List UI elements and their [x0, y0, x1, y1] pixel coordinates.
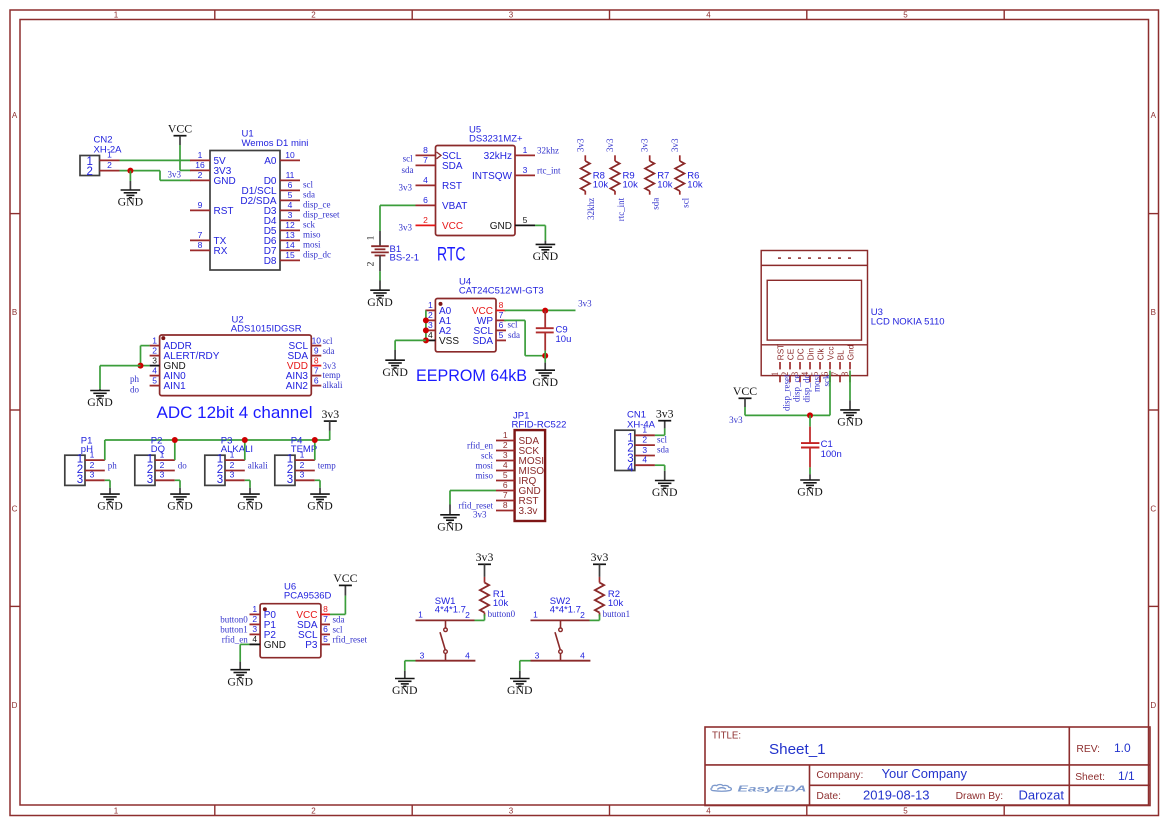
pin 3: [225, 479, 245, 481]
svg-text:VCC: VCC: [442, 221, 463, 232]
svg-text:6: 6: [503, 480, 508, 490]
svg-text:GND: GND: [167, 499, 193, 513]
svg-text:GND: GND: [837, 415, 863, 429]
rtc U5 DS3231MZ+: [399, 124, 561, 265]
svg-text:GND: GND: [237, 499, 263, 513]
svg-text:button1: button1: [603, 609, 631, 619]
eeprom U4 CAT24C512WI-GT3: [416, 277, 544, 385]
svg-text:disp_dc: disp_dc: [303, 250, 331, 260]
svg-text:3: 3: [642, 445, 647, 455]
pin 3: [295, 479, 315, 481]
svg-text:2: 2: [90, 460, 95, 470]
svg-text:scl: scl: [323, 336, 333, 346]
svg-text:Date:: Date:: [816, 791, 841, 802]
wire pin3 to ground: [315, 480, 320, 494]
svg-text:GND: GND: [652, 485, 678, 499]
svg-text:1: 1: [230, 450, 235, 460]
svg-text:3: 3: [152, 355, 157, 365]
svg-text:3: 3: [217, 474, 223, 486]
junction: [542, 353, 548, 359]
pin 13 D6: [280, 239, 300, 241]
svg-text:2: 2: [152, 345, 157, 355]
svg-text:ph: ph: [130, 374, 140, 384]
ground: [97, 494, 123, 513]
wire pin3 to ground: [175, 480, 180, 494]
wire R1 to SW pin2: [475, 614, 485, 620]
svg-text:3: 3: [300, 470, 305, 480]
svg-text:3v3: 3v3: [168, 170, 182, 180]
io expander U6 PCA9536D: [220, 582, 367, 658]
svg-text:2: 2: [198, 170, 203, 180]
pin 3: [85, 479, 105, 481]
pin 2: [225, 470, 245, 472]
svg-text:GND: GND: [507, 683, 533, 697]
svg-text:VBAT: VBAT: [442, 201, 467, 212]
svg-text:1: 1: [198, 150, 203, 160]
junction: [423, 317, 429, 323]
connector P2 DQ: [135, 436, 175, 487]
mcu U1 Wemos D1 mini: [190, 128, 340, 270]
wire SW pin3 to ground: [405, 661, 416, 679]
pin 7 RST: [496, 500, 515, 502]
pin 9 RST: [190, 209, 210, 211]
switch SW1 4*4*1.7: [416, 596, 476, 661]
svg-text:scl: scl: [303, 180, 313, 190]
svg-text:4: 4: [706, 806, 711, 815]
pin 8 VDD: [311, 365, 321, 367]
pin 1: [379, 231, 381, 246]
wire U4 address pins: [425, 310, 427, 340]
svg-text:GND: GND: [118, 195, 144, 209]
svg-text:VCC: VCC: [333, 571, 357, 585]
pin 8 RX: [190, 249, 210, 251]
battery B1 BS-2-1: [367, 231, 420, 271]
svg-text:disp_reset: disp_reset: [782, 374, 792, 411]
svg-text:6: 6: [323, 624, 328, 634]
svg-text:1: 1: [152, 335, 157, 345]
wire to ground: [129, 171, 131, 181]
pin 12 D5: [280, 229, 300, 231]
svg-text:3.3v: 3.3v: [519, 506, 538, 517]
wire CN1-4 to ground: [655, 465, 665, 480]
contacts: [560, 620, 562, 628]
svg-text:A: A: [12, 111, 18, 120]
svg-text:5: 5: [499, 330, 504, 340]
pin 2 GND: [190, 179, 210, 181]
svg-text:14: 14: [285, 240, 295, 250]
pin 9 SDA: [311, 355, 321, 357]
bezel dots: [778, 257, 851, 259]
pin 1: [295, 459, 315, 461]
connector CN2 XH-2A: [80, 135, 122, 179]
pin 7 SDA: [321, 623, 330, 625]
pin 8 VCC: [496, 309, 506, 311]
svg-text:7: 7: [830, 371, 840, 376]
ground: [533, 244, 559, 263]
svg-text:VCC: VCC: [168, 122, 192, 136]
pin 8 VCC: [321, 613, 330, 615]
svg-text:15: 15: [285, 250, 295, 260]
svg-text:3: 3: [90, 470, 95, 480]
svg-text:3: 3: [252, 624, 257, 634]
pin 4 RST: [416, 184, 436, 186]
svg-text:AIN1: AIN1: [164, 381, 187, 392]
svg-text:disp_dc: disp_dc: [802, 374, 812, 402]
svg-text:1: 1: [367, 235, 377, 240]
svg-text:1: 1: [523, 145, 528, 155]
pin 2 SCK: [496, 450, 515, 452]
svg-text:4: 4: [627, 463, 634, 475]
junction: [127, 168, 133, 174]
svg-text:3v3: 3v3: [640, 138, 650, 152]
pin 7 AIN3: [311, 375, 321, 377]
svg-text:Sheet:: Sheet:: [1075, 772, 1105, 783]
svg-text:2: 2: [580, 610, 585, 620]
pin 1 32kHz: [515, 154, 535, 156]
svg-text:sda: sda: [323, 346, 335, 356]
svg-text:disp_reset: disp_reset: [303, 210, 340, 220]
svg-text:7: 7: [423, 155, 428, 165]
ground: [167, 494, 193, 513]
pin 1 5V: [190, 159, 210, 161]
wire pin3 to ground: [245, 480, 250, 494]
svg-text:sda: sda: [303, 190, 315, 200]
svg-text:3v3: 3v3: [399, 183, 413, 193]
svg-text:Company:: Company:: [816, 770, 863, 781]
svg-text:D: D: [1150, 701, 1156, 710]
svg-text:miso: miso: [475, 470, 493, 480]
svg-text:temp: temp: [318, 461, 336, 471]
svg-text:1: 1: [160, 450, 165, 460]
svg-text:GND: GND: [227, 674, 253, 688]
pin 4 D3: [280, 209, 300, 211]
ground: [837, 410, 863, 429]
svg-text:mosi: mosi: [475, 460, 493, 470]
svg-text:3: 3: [509, 806, 514, 815]
easyeda logo: [711, 783, 807, 793]
svg-text:3v3: 3v3: [729, 415, 743, 425]
adc U2 ADS1015IDGSR: [130, 315, 343, 423]
svg-text:3: 3: [287, 474, 293, 486]
svg-text:scl: scl: [657, 434, 667, 444]
svg-text:3v3: 3v3: [476, 550, 494, 564]
ground: [797, 480, 823, 499]
svg-text:XH-4A: XH-4A: [627, 420, 656, 431]
pin 2 P1: [250, 623, 261, 625]
svg-text:VCC: VCC: [733, 384, 757, 398]
svg-text:5: 5: [903, 806, 908, 815]
header JP1 RFID-RC522: [459, 411, 567, 521]
svg-text:4: 4: [642, 455, 647, 465]
wire U6 GND to ground: [240, 644, 249, 669]
pin 4 GND: [250, 643, 261, 645]
svg-text:3v3: 3v3: [575, 138, 585, 152]
pin 1 mark: [161, 336, 165, 340]
svg-text:10u: 10u: [556, 334, 572, 345]
power flag 3v3 (CN1): [656, 407, 674, 421]
junction: [242, 437, 248, 443]
svg-text:ADS1015IDGSR: ADS1015IDGSR: [231, 323, 302, 334]
pin 4: [561, 660, 591, 662]
svg-text:3v3: 3v3: [591, 550, 609, 564]
power flag VCC (U6): [333, 571, 357, 585]
svg-text:CAT24C512WI-GT3: CAT24C512WI-GT3: [459, 286, 544, 297]
svg-text:GND: GND: [307, 499, 333, 513]
pin 5 D2/SDA: [280, 199, 300, 201]
svg-text:LCD NOKIA 5110: LCD NOKIA 5110: [871, 316, 945, 327]
svg-text:2: 2: [428, 310, 433, 320]
wire U5 GND to ground: [535, 225, 545, 244]
svg-text:3: 3: [77, 474, 83, 486]
svg-text:1.0: 1.0: [1114, 741, 1131, 755]
pin 10 A0: [280, 159, 300, 161]
svg-text:BL: BL: [837, 350, 846, 360]
resistor R9 10k: [605, 138, 638, 221]
svg-text:3: 3: [509, 11, 514, 20]
svg-text:3v3: 3v3: [605, 138, 615, 152]
pin 3: [416, 660, 446, 662]
svg-text:3v3: 3v3: [670, 138, 680, 152]
svg-text:3v3: 3v3: [321, 407, 339, 421]
wire LCD Gnd to ground: [849, 371, 851, 410]
svg-text:Gnd: Gnd: [847, 344, 856, 360]
svg-text:1: 1: [770, 372, 780, 377]
svg-text:2: 2: [230, 460, 235, 470]
svg-text:7: 7: [314, 365, 319, 375]
svg-text:REV:: REV:: [1076, 744, 1100, 755]
pin 2: [379, 256, 381, 272]
svg-text:B: B: [12, 308, 17, 317]
svg-text:1: 1: [114, 11, 119, 20]
svg-text:8: 8: [503, 500, 508, 510]
svg-text:1: 1: [533, 610, 538, 620]
pin 16 3V3: [190, 169, 210, 171]
resistor R7 10k: [640, 138, 673, 210]
wire U4 VCC to 3v3: [505, 309, 576, 311]
svg-text:SDA: SDA: [472, 336, 493, 347]
pin 11 D0: [280, 179, 300, 181]
svg-text:disp_ce: disp_ce: [303, 200, 331, 210]
pin 1: [155, 459, 175, 461]
svg-text:3: 3: [428, 320, 433, 330]
svg-text:sda: sda: [508, 330, 520, 340]
svg-text:3: 3: [288, 210, 293, 220]
svg-text:1: 1: [428, 300, 433, 310]
pin 7 TX: [190, 239, 210, 241]
capacitor C1 100n: [801, 415, 842, 467]
wire U4 WP to C9 bottom: [504, 320, 545, 355]
svg-text:4: 4: [423, 175, 428, 185]
pin 3 D4: [280, 219, 300, 221]
svg-text:sda: sda: [333, 615, 345, 625]
ground: [532, 370, 558, 389]
svg-text:32kHz: 32kHz: [484, 151, 512, 162]
svg-text:4: 4: [503, 460, 508, 470]
svg-text:10k: 10k: [608, 598, 624, 609]
svg-text:button0: button0: [220, 615, 248, 625]
svg-text:rtc_int: rtc_int: [616, 197, 626, 221]
switch SW2 4*4*1.7: [531, 596, 591, 661]
wire U5 VBAT to B1: [380, 205, 416, 231]
svg-text:4: 4: [465, 650, 470, 660]
ground: [437, 515, 463, 534]
wire VCC to U1 3V3: [179, 145, 181, 170]
pin 5 GND: [515, 224, 535, 226]
svg-text:3v3: 3v3: [656, 407, 674, 421]
svg-text:GND: GND: [532, 375, 558, 389]
pin 4: [635, 464, 655, 466]
svg-text:2019-08-13: 2019-08-13: [863, 787, 930, 802]
svg-text:DC: DC: [797, 348, 806, 360]
svg-text:Sheet_1: Sheet_1: [769, 741, 826, 758]
svg-text:8: 8: [499, 300, 504, 310]
svg-text:A0: A0: [264, 156, 277, 167]
svg-text:scl: scl: [681, 197, 691, 207]
junction: [807, 412, 813, 418]
pin 4: [446, 660, 476, 662]
svg-text:3: 3: [147, 474, 153, 486]
junction: [542, 308, 548, 314]
power flag 3v3 (R2): [591, 550, 609, 577]
pin 1: [100, 159, 120, 161]
pin 7 SDA: [416, 164, 436, 166]
svg-text:GND: GND: [437, 519, 463, 533]
ground: [392, 679, 418, 698]
svg-text:2: 2: [252, 614, 257, 624]
svg-text:A: A: [1151, 111, 1157, 120]
power flag 3v3 (R1): [476, 550, 494, 577]
svg-text:GND: GND: [392, 683, 418, 697]
svg-text:GND: GND: [367, 295, 393, 309]
svg-text:rfid_reset: rfid_reset: [333, 635, 368, 645]
svg-text:1: 1: [107, 150, 112, 160]
ground: [87, 391, 113, 410]
svg-text:D8: D8: [264, 256, 277, 267]
svg-text:ALKALI: ALKALI: [221, 444, 253, 455]
pin 6 SCL: [496, 329, 506, 331]
plates: [371, 245, 389, 247]
pin 6 AIN2: [311, 385, 321, 387]
svg-text:6: 6: [288, 180, 293, 190]
pin 5 P3: [321, 643, 330, 645]
ground: [118, 190, 144, 209]
svg-text:RX: RX: [214, 246, 228, 257]
svg-text:DS3231MZ+: DS3231MZ+: [469, 134, 523, 145]
ground: [507, 679, 533, 698]
wire VSS to ground: [395, 340, 426, 360]
svg-text:2: 2: [642, 435, 647, 445]
svg-text:button1: button1: [220, 625, 248, 635]
ground: [652, 481, 678, 500]
svg-text:temp: temp: [323, 370, 341, 380]
svg-text:AIN2: AIN2: [286, 381, 309, 392]
pin 3 MOSI: [496, 460, 515, 462]
svg-text:2: 2: [311, 806, 316, 815]
wire pin1 to 3v3 bus: [314, 440, 316, 460]
pin 10 SCL: [311, 345, 321, 347]
svg-text:1/1: 1/1: [1118, 769, 1135, 783]
svg-text:3: 3: [535, 650, 540, 660]
svg-text:button0: button0: [488, 609, 516, 619]
svg-text:4: 4: [288, 200, 293, 210]
pin 6 SCL: [321, 633, 330, 635]
svg-text:Din: Din: [807, 347, 816, 360]
svg-text:4: 4: [706, 11, 711, 20]
svg-text:1: 1: [90, 450, 95, 460]
wire R2 to SW pin2: [590, 614, 600, 620]
svg-text:2: 2: [160, 460, 165, 470]
svg-text:RST: RST: [214, 206, 234, 217]
svg-text:sck: sck: [303, 220, 315, 230]
svg-text:32khz: 32khz: [537, 146, 559, 156]
pin 3 A2: [425, 329, 435, 331]
svg-text:4*4*1.7: 4*4*1.7: [550, 605, 581, 616]
pin 1: [85, 459, 105, 461]
pin 3 INTSQW: [515, 174, 535, 176]
pin 6 GND: [496, 490, 515, 492]
pin 7 WP: [496, 319, 506, 321]
wire pin1 to 3v3 bus: [174, 440, 176, 460]
svg-text:8: 8: [323, 604, 328, 614]
ground: [382, 360, 408, 379]
power flag VCC (LCD): [733, 384, 757, 407]
svg-text:8: 8: [840, 371, 850, 376]
svg-text:RFID-RC522: RFID-RC522: [512, 419, 567, 430]
junction: [172, 437, 178, 443]
svg-text:6: 6: [499, 320, 504, 330]
svg-text:9: 9: [314, 345, 319, 355]
svg-text:GND: GND: [533, 249, 559, 263]
pin 2 VCC: [416, 224, 436, 226]
pin 3 P2: [250, 633, 261, 635]
svg-text:GND: GND: [97, 499, 123, 513]
svg-text:4: 4: [580, 650, 585, 660]
connector P1 pH: [65, 436, 105, 487]
wire VCC to LCD Vcc: [745, 407, 830, 415]
svg-text:PCA9536D: PCA9536D: [284, 590, 332, 601]
svg-text:10k: 10k: [593, 180, 609, 191]
svg-text:sda: sda: [657, 445, 669, 455]
pin 1 SDA: [496, 440, 515, 442]
pin 2: [85, 470, 105, 472]
svg-text:6: 6: [423, 195, 428, 205]
svg-text:ph: ph: [108, 461, 118, 471]
svg-text:4: 4: [152, 365, 157, 375]
wire SW pin3 to ground: [520, 661, 531, 679]
svg-text:10k: 10k: [623, 180, 639, 191]
svg-text:sda: sda: [651, 198, 661, 210]
svg-text:2: 2: [503, 440, 508, 450]
resistor R8 10k: [575, 138, 608, 220]
svg-text:12: 12: [285, 220, 295, 230]
resistor R1 10k: [480, 577, 509, 616]
svg-text:D: D: [12, 701, 18, 710]
svg-text:13: 13: [285, 230, 295, 240]
svg-text:2: 2: [107, 160, 112, 170]
svg-text:3: 3: [503, 450, 508, 460]
wire pin1 to 3v3 bus: [104, 440, 106, 460]
svg-text:Vcc: Vcc: [827, 347, 836, 361]
pin 3 GND: [150, 365, 160, 367]
svg-text:32khz: 32khz: [586, 198, 596, 220]
svg-text:GND: GND: [490, 221, 512, 232]
svg-text:SDA: SDA: [442, 161, 463, 172]
wire 3v3 bus: [105, 439, 330, 441]
svg-text:INTSQW: INTSQW: [472, 171, 513, 182]
svg-text:BS-2-1: BS-2-1: [390, 252, 420, 263]
connector P4 TEMP: [275, 436, 317, 487]
clock mark: [437, 152, 442, 159]
